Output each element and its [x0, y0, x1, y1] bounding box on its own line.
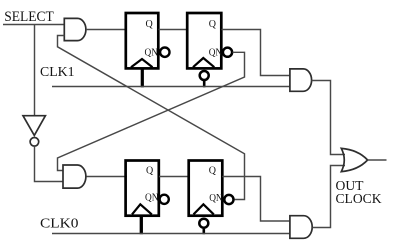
wire: SELECT net — [3, 24, 65, 26]
svg-text:CLK0: CLK0 — [40, 217, 79, 232]
wire: inverter output to A2 lower input — [35, 146, 64, 181]
wire: CLK0 net — [52, 233, 291, 235]
wire: FF4 Q to A4 upper input — [222, 177, 290, 222]
inverter U1 (SELECT inverted) — [23, 116, 45, 136]
svg-text:QN: QN — [209, 47, 223, 58]
D flip-flop FF4 box — [189, 161, 223, 216]
clock edge triangle of FF1 — [131, 59, 153, 67]
bubble on FF2 QN output — [223, 48, 232, 57]
svg-text:CLK1: CLK1 — [40, 65, 75, 80]
D flip-flop FF3 box — [126, 161, 159, 216]
bubble on FF1 QN output — [160, 48, 169, 57]
wire: OR output (OUT CLOCK) — [368, 159, 387, 161]
bubble on FF4 QN output — [224, 195, 233, 204]
D flip-flop FF2 box — [187, 13, 221, 68]
AND gate A4 — [290, 216, 312, 239]
AND gate A2 — [63, 165, 86, 188]
clock stub of FF1 to CLK1 line — [141, 68, 144, 87]
svg-text:SELECT: SELECT — [4, 9, 54, 25]
wire: A3 output to OR upper input — [312, 81, 346, 155]
wire: FF2 Q to A3 upper input — [222, 30, 291, 76]
svg-text:Q: Q — [209, 166, 217, 177]
D flip-flop FF1 box — [126, 13, 159, 68]
wire: FF3 Q to FF4 D — [159, 176, 189, 178]
svg-text:CLOCK: CLOCK — [336, 192, 382, 207]
bubble on inverter output — [30, 138, 39, 147]
wire: A4 output to OR lower input — [313, 166, 346, 228]
clock bubble of FF4 (inverted clock input) — [199, 219, 208, 228]
wire: A1 lower input from FF4 QN (diagonal feedback) — [58, 36, 245, 200]
svg-text:QN: QN — [209, 193, 223, 204]
clock edge triangle of FF2 — [193, 58, 214, 67]
svg-text:QN: QN — [145, 47, 159, 58]
wire: FF1 Q to FF2 D — [159, 29, 188, 31]
wire: FF2 QN diagonal feedback to A2 upper input — [58, 52, 245, 170]
svg-text:Q: Q — [146, 19, 154, 30]
AND gate A1 — [64, 18, 86, 40]
wire: SELECT branch to inverter — [34, 25, 36, 117]
wire: A1 output to FF1 D — [86, 29, 127, 31]
svg-text:Q: Q — [209, 19, 217, 30]
clock stub of FF4 to CLK0 line — [203, 229, 206, 235]
clock edge triangle of FF4 — [194, 204, 214, 214]
AND gate A3 — [290, 69, 312, 91]
clock bubble of FF2 (inverted clock input) — [200, 71, 209, 80]
bubble on FF3 QN output — [160, 195, 169, 204]
wire: A2 output to FF3 D — [87, 176, 128, 178]
clock edge triangle of FF3 — [132, 204, 152, 214]
svg-text:QN: QN — [145, 192, 159, 203]
OR gate O1 — [341, 148, 367, 171]
clock stub of FF2 to CLK1 line — [203, 81, 206, 87]
wire: CLK1 net — [52, 86, 291, 88]
svg-text:Q: Q — [146, 166, 154, 177]
clock stub of FF3 to CLK0 line — [140, 216, 143, 235]
